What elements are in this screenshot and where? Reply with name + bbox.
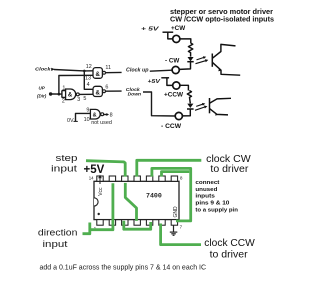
svg-text:&: & — [96, 91, 101, 97]
svg-text:3: 3 — [77, 97, 80, 103]
svg-text:&: & — [96, 72, 101, 78]
svg-text:Vcc: Vcc — [98, 187, 104, 196]
svg-text:10: 10 — [84, 117, 90, 123]
svg-text:GND: GND — [173, 206, 179, 218]
svg-text:7400: 7400 — [146, 193, 162, 200]
svg-text:connect: connect — [195, 180, 219, 186]
svg-text:&: & — [93, 112, 97, 118]
svg-text:Clock: Clock — [35, 66, 51, 71]
svg-text:9: 9 — [86, 108, 89, 114]
svg-text:0V: 0V — [67, 118, 74, 124]
svg-text:1: 1 — [62, 85, 65, 91]
svg-text:12: 12 — [86, 64, 92, 70]
svg-text:4: 4 — [87, 82, 90, 88]
svg-text:to a supply pin: to a supply pin — [195, 208, 238, 214]
svg-text:input: input — [43, 239, 69, 249]
svg-text:(Dir): (Dir) — [37, 93, 47, 98]
svg-text:+CCW: +CCW — [164, 92, 184, 99]
svg-text:not used: not used — [91, 120, 112, 126]
svg-text:14: 14 — [89, 176, 94, 181]
svg-text:8: 8 — [110, 113, 113, 119]
svg-text:clock CCW: clock CCW — [204, 238, 255, 249]
svg-text:pins 9 & 10: pins 9 & 10 — [195, 200, 229, 206]
svg-text:+5V: +5V — [84, 164, 105, 176]
svg-text:UP: UP — [39, 85, 46, 90]
svg-text:Down: Down — [128, 91, 142, 96]
svg-text:direction: direction — [38, 228, 78, 238]
svg-text:- CW: - CW — [165, 57, 179, 64]
svg-text:+ 5V: + 5V — [141, 26, 160, 32]
svg-text:Clock up: Clock up — [126, 67, 149, 73]
svg-text:add a 0.1uF across the supply: add a 0.1uF across the supply pins 7 & 1… — [40, 265, 207, 272]
svg-text:- CCW: - CCW — [161, 123, 182, 130]
svg-text:step: step — [56, 153, 78, 163]
svg-text:to driver: to driver — [210, 249, 249, 260]
svg-text:unused: unused — [195, 187, 218, 193]
svg-text:13: 13 — [85, 75, 91, 81]
svg-text:inputs: inputs — [195, 194, 215, 200]
svg-text:11: 11 — [105, 65, 111, 71]
svg-text:+5V: +5V — [148, 79, 161, 85]
svg-text:CW /CCW opto-isolated inputs: CW /CCW opto-isolated inputs — [170, 16, 274, 23]
svg-text:to driver: to driver — [210, 164, 249, 175]
svg-text:&: & — [68, 93, 73, 99]
svg-text:5: 5 — [83, 96, 86, 102]
svg-text:2: 2 — [62, 98, 65, 104]
svg-text:6: 6 — [105, 84, 108, 90]
svg-text:+CW: +CW — [171, 25, 185, 32]
svg-text:input: input — [51, 164, 78, 174]
svg-text:stepper or servo motor driver: stepper or servo motor driver — [170, 9, 273, 16]
